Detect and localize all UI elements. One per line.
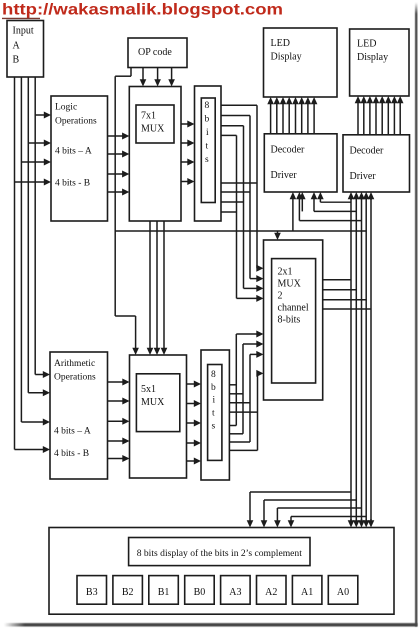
wire+arrow bus v1 to Logic input 1 xyxy=(35,114,45,116)
wire+arrow Decoder2 to LED2 bit 5 xyxy=(387,102,389,135)
wire 8bitsL out l1 stub xyxy=(221,182,257,184)
arrow right bus v2 into display box xyxy=(355,519,357,522)
svg-text:MUX: MUX xyxy=(141,397,165,408)
wire+arrow Arithmetic out 3 to 5x1 MUX xyxy=(108,420,124,422)
arrow into Decoder1 bottom 1 xyxy=(319,198,321,203)
arrow into Decoder1 bottom 2b xyxy=(301,198,303,212)
wire 8bitsA out l2 stub xyxy=(229,433,243,435)
block LED Display 2 xyxy=(350,29,409,96)
wire+arrow OP code select 3 into 7x1 container xyxy=(171,68,173,81)
block bit cell A2 xyxy=(257,576,287,605)
wire 8bitsA out u1 stub xyxy=(229,384,236,386)
wire input bus v3 (x21) xyxy=(20,77,22,422)
svg-text:t: t xyxy=(206,142,209,152)
svg-text:Operations: Operations xyxy=(55,117,97,127)
svg-text:4 bits - B: 4 bits - B xyxy=(54,449,89,459)
arrow display feed 2 xyxy=(263,500,265,522)
block LED Display 1 xyxy=(264,28,338,97)
svg-text:Input: Input xyxy=(13,26,34,37)
wire 8bitsL out l3 stub xyxy=(221,201,244,203)
svg-text:4 bits - B: 4 bits - B xyxy=(55,179,90,189)
wire+arrow Decoder1 to LED1 bit 5 xyxy=(301,103,303,134)
block bit cell B2 xyxy=(113,576,142,605)
wire right bus v1 xyxy=(350,198,352,521)
svg-text:i: i xyxy=(213,396,216,406)
block 2x1 MUX container xyxy=(264,240,323,400)
svg-text:s: s xyxy=(205,155,209,165)
arrow into Decoder1 bottom 2 xyxy=(313,198,315,212)
wire+arrow 7x1 out 3 to 8-bits xyxy=(181,161,189,163)
wire+arrow bus v2 to Logic input 2 xyxy=(28,142,45,144)
svg-text:Display: Display xyxy=(357,52,388,63)
wire+arrow OP code select into 5x1 container xyxy=(135,316,137,349)
arrow right bus v3 into display box xyxy=(361,519,363,522)
svg-text:A: A xyxy=(13,41,21,52)
wire+arrow Decoder2 to LED2 bit 7 xyxy=(399,102,401,135)
block caption 8 bits display of the bits in 2's complement xyxy=(129,538,310,566)
wire staircase v x250 up xyxy=(249,354,251,442)
wire 8bitsA out l4 stub xyxy=(229,449,257,451)
svg-text:8-bits: 8-bits xyxy=(278,315,301,326)
svg-text:http://wakasmalik.blogspot.com: http://wakasmalik.blogspot.com xyxy=(2,2,283,19)
block bit cell A0 xyxy=(328,576,358,605)
wire+arrow Decoder1 to LED1 bit 4 xyxy=(295,103,297,134)
wire right bus v2 xyxy=(355,198,357,521)
wire+arrow 5x1 out 1 to 8-bits xyxy=(187,383,196,385)
wire+arrow Decoder2 to LED2 bit 0 xyxy=(357,102,359,135)
wire+arrow 7x1 out 2 to 8-bits xyxy=(181,142,189,144)
block OP code xyxy=(128,38,187,68)
wire+arrow 5x1 out 4 to 8-bits xyxy=(187,442,196,444)
wire+arrow bus v2 to Arithmetic input 2 xyxy=(28,392,44,394)
svg-text:MUX: MUX xyxy=(141,124,165,135)
arrow right bus v5 into Decoder2 bottom xyxy=(370,198,372,200)
wire+arrow bus v4 to Arithmetic input 4 xyxy=(15,449,45,451)
wire staircase v x243 down xyxy=(243,126,245,289)
wire staircase v x250 down xyxy=(249,116,251,279)
block Input A B xyxy=(7,21,44,78)
wire+arrow Decoder2 to LED2 bit 6 xyxy=(393,102,395,135)
wire select line y231 to 2x1 MUX and bus xyxy=(115,230,366,232)
block 5x1 MUX container xyxy=(130,355,187,478)
block 8 bits register (logic) container xyxy=(195,86,222,221)
svg-text:2: 2 xyxy=(278,291,283,302)
wire+arrow 5x1 out 2 to 8-bits xyxy=(187,403,196,405)
svg-text:4 bits – A: 4 bits – A xyxy=(55,147,92,157)
block 2x1 MUX inner xyxy=(272,259,316,383)
block 8 bits register (arith) inner xyxy=(208,365,222,461)
svg-text:MUX: MUX xyxy=(278,279,302,290)
wire+arrow bus v3 to Logic input 3 xyxy=(21,161,45,163)
wire+arrow bus v4 to Logic input 4 xyxy=(15,181,46,183)
wire OP code elbow right xyxy=(115,315,135,317)
block bit cell B0 xyxy=(185,576,215,605)
svg-text:i: i xyxy=(206,128,209,138)
arrow right bus v3 into Decoder2 bottom xyxy=(361,198,363,200)
svg-text:Arithmetic: Arithmetic xyxy=(54,359,95,369)
wire+arrow into 2x1 MUX in 3 xyxy=(244,287,258,289)
wire staircase v x257 up xyxy=(257,373,259,450)
svg-text:LED: LED xyxy=(271,38,290,49)
wire 8bitsL out u1 stub xyxy=(221,104,257,106)
svg-text:B2: B2 xyxy=(122,587,134,598)
wire+arrow Logic out 4 to 7x1 MUX xyxy=(108,191,124,193)
block 5x1 MUX inner xyxy=(136,374,179,432)
wire+arrow Decoder2 to LED2 bit 2 xyxy=(369,102,371,135)
wire input bus v1 (x35) xyxy=(34,77,36,375)
watermark underline under http xyxy=(2,17,40,19)
block 8 bits register (logic) inner xyxy=(201,98,215,203)
arrow right bus v1 into Decoder2 bottom xyxy=(350,198,352,200)
arrow right bus v5 into display box xyxy=(370,519,372,522)
wire+arrow Decoder2 to LED2 bit 4 xyxy=(381,102,383,135)
wire+arrow 7x1 bottom 3 into 5x1 container xyxy=(163,221,165,349)
wire+arrow 7x1 bottom 2 into 5x1 container xyxy=(156,221,158,349)
arrow right bus v2 into Decoder2 bottom xyxy=(355,198,357,200)
wire+arrow Arithmetic out 1 to 5x1 MUX xyxy=(108,381,124,383)
svg-text:5x1: 5x1 xyxy=(141,384,156,395)
svg-text:b: b xyxy=(211,383,216,393)
wire+arrow Arithmetic out 2 to 5x1 MUX xyxy=(108,400,124,402)
svg-text:Operations: Operations xyxy=(54,373,96,383)
arrow display feed 1 xyxy=(249,492,251,522)
wire+arrow into 2x1 MUX in 6 xyxy=(243,343,258,345)
svg-text:OP code: OP code xyxy=(138,47,172,58)
wire+arrow Decoder1 to LED1 bit 7 xyxy=(313,103,315,134)
wire+arrow OP code select 2 into 7x1 container xyxy=(157,68,159,81)
wire+arrow OP code select 1 into 7x1 container xyxy=(142,68,144,81)
wire+arrow into 2x1 MUX in 5 xyxy=(236,333,257,335)
arrow into Decoder1 bottom 3 xyxy=(298,198,300,221)
svg-text:Decoder: Decoder xyxy=(271,145,306,156)
block Arithmetic Operations xyxy=(50,352,108,479)
wire staircase v x236 down xyxy=(236,135,238,298)
wire input bus v2 (x28) xyxy=(27,77,29,393)
svg-text:Logic: Logic xyxy=(55,103,77,113)
wire staircase v x243 up xyxy=(242,344,244,434)
wire+arrow Arithmetic out 5 to 5x1 MUX xyxy=(108,458,124,460)
svg-text:Decoder: Decoder xyxy=(350,146,385,157)
arrow into Decoder1 bottom 4 from select line xyxy=(292,198,294,231)
wire+arrow into 2x1 MUX in 4 xyxy=(237,297,258,299)
arrow display feed 4 xyxy=(290,517,292,522)
wire+arrow Decoder1 to LED1 bit 1 xyxy=(276,103,278,134)
wire 2x1 out 3 to right bus xyxy=(323,299,367,301)
arrow right bus v4 into display box xyxy=(365,519,367,522)
wire display feed h2 xyxy=(264,499,356,501)
wire+arrow Decoder1 to LED1 bit 3 xyxy=(288,103,290,134)
wire 2x1 out 2 to right bus xyxy=(323,289,357,291)
svg-text:8: 8 xyxy=(211,370,216,380)
block 7x1 MUX container xyxy=(129,87,181,222)
svg-text:8 bits display of the bits in: 8 bits display of the bits in 2’s comple… xyxy=(137,548,303,559)
block bit cell B1 xyxy=(149,576,179,605)
wire+arrow into 2x1 MUX in 7 xyxy=(250,353,258,355)
wire 2x1 out 4 to right bus xyxy=(323,308,371,310)
wire right bus v4 xyxy=(365,198,367,521)
wire+arrow 5x1 out 3 to 8-bits xyxy=(187,422,196,424)
wire+arrow into 2x1 MUX in 1 xyxy=(256,267,259,269)
block bit cell B3 xyxy=(77,576,107,605)
wire+arrow into 2x1 MUX in 2 xyxy=(250,278,258,280)
block 8 bits register (arith) container xyxy=(201,350,229,480)
svg-text:t: t xyxy=(212,409,215,419)
wire 8bitsA out l3 stub xyxy=(229,441,250,443)
wire 8bitsA out u2 stub xyxy=(229,393,243,395)
wire+arrow 7x1 out 1 to 8-bits xyxy=(181,123,189,125)
wire right bus v3 xyxy=(361,198,363,521)
wire 8bitsA out l1 stub xyxy=(229,425,236,427)
wire+arrow Decoder1 to LED1 bit 0 xyxy=(270,103,272,134)
svg-text:channel: channel xyxy=(278,303,309,314)
block 7x1 MUX inner xyxy=(136,105,174,143)
svg-text:2x1: 2x1 xyxy=(278,267,293,278)
block Logic Operations xyxy=(51,96,108,221)
svg-text:B3: B3 xyxy=(86,587,98,598)
block bit cell A1 xyxy=(292,576,322,605)
wire+arrow Decoder2 to LED2 bit 1 xyxy=(363,102,365,135)
wire 8bitsL out l2 stub xyxy=(221,191,250,193)
wire 2x1 out 1 to right bus xyxy=(323,279,351,281)
wire display feed h4 xyxy=(291,516,366,518)
wire+arrow Decoder2 to LED2 bit 3 xyxy=(375,102,377,135)
svg-text:B0: B0 xyxy=(194,587,206,598)
block 8-bit display assembly xyxy=(49,528,394,615)
wire 8bitsL out u2 stub xyxy=(221,115,250,117)
svg-text:B1: B1 xyxy=(158,587,170,598)
svg-text:LED: LED xyxy=(357,39,376,50)
wire+arrow bus v1 to Arithmetic input 1 xyxy=(35,374,44,376)
wire+arrow Logic out 3 to 7x1 MUX xyxy=(108,173,124,175)
image drop shadow right edge xyxy=(415,3,417,627)
wire dec1 staircase h2 xyxy=(314,210,356,212)
svg-text:b: b xyxy=(205,115,210,125)
wire dec1 staircase h1 xyxy=(320,201,351,203)
block Decoder Driver 2 xyxy=(343,135,410,192)
wire 8bitsL out u4 stub xyxy=(221,134,237,136)
wire display feed h3 xyxy=(277,507,361,509)
wire OP code elbow left xyxy=(115,75,131,77)
wire+arrow 7x1 out 4 to 8-bits xyxy=(181,181,189,183)
wire+arrow Decoder1 to LED1 bit 6 xyxy=(307,103,309,134)
wire 8bitsA out u3 stub xyxy=(229,402,250,404)
svg-text:8: 8 xyxy=(205,101,210,111)
wire OP code long vertical xyxy=(114,76,116,316)
svg-text:s: s xyxy=(212,422,216,432)
wire 8bitsL out u3 stub xyxy=(221,125,244,127)
image drop shadow bottom edge xyxy=(4,623,417,626)
block bit cell A3 xyxy=(221,576,251,605)
wire 8bitsA out u4 stub xyxy=(229,411,257,413)
svg-text:B: B xyxy=(13,55,20,66)
wire 8bitsL out l4 stub xyxy=(221,211,237,213)
svg-text:A0: A0 xyxy=(337,587,349,598)
wire+arrow 7x1 bottom 1 into 5x1 container xyxy=(149,221,151,349)
wire dec1 staircase h3 xyxy=(299,220,361,222)
wire+arrow Decoder1 to LED1 bit 2 xyxy=(282,103,284,134)
wire display feed h1 xyxy=(250,491,351,493)
arrow right bus v4 into Decoder2 bottom xyxy=(365,198,367,200)
svg-text:A3: A3 xyxy=(229,587,241,598)
wire OP code stub down xyxy=(130,68,132,77)
arrow right bus v1 into display box xyxy=(350,519,352,522)
wire+arrow Logic out 1 to 7x1 MUX xyxy=(108,135,124,137)
svg-text:A2: A2 xyxy=(265,587,277,598)
arrow display feed 3 xyxy=(276,508,278,522)
wire+arrow Logic out 2 to 7x1 MUX xyxy=(108,153,124,155)
svg-text:A1: A1 xyxy=(301,587,313,598)
svg-text:Driver: Driver xyxy=(271,170,298,181)
wire+arrow Arithmetic out 4 to 5x1 MUX xyxy=(108,440,124,442)
wire+arrow into 2x1 MUX in 8 xyxy=(257,372,259,374)
wire right bus v5 xyxy=(370,198,372,521)
svg-text:4 bits – A: 4 bits – A xyxy=(54,427,91,437)
svg-text:7x1: 7x1 xyxy=(141,111,156,122)
svg-text:Display: Display xyxy=(271,52,302,63)
wire+arrow select drop into 2x1 container top xyxy=(277,231,279,234)
wire+arrow 5x1 out 5 to 8-bits xyxy=(187,460,196,462)
wire input bus v4 (x14) xyxy=(14,77,16,450)
wire staircase v x236 up xyxy=(235,334,237,426)
wire+arrow bus v3 to Arithmetic input 3 xyxy=(21,421,44,423)
block Decoder Driver 1 xyxy=(264,134,337,192)
wire staircase v x257 down xyxy=(256,105,258,268)
svg-text:Driver: Driver xyxy=(350,171,377,182)
